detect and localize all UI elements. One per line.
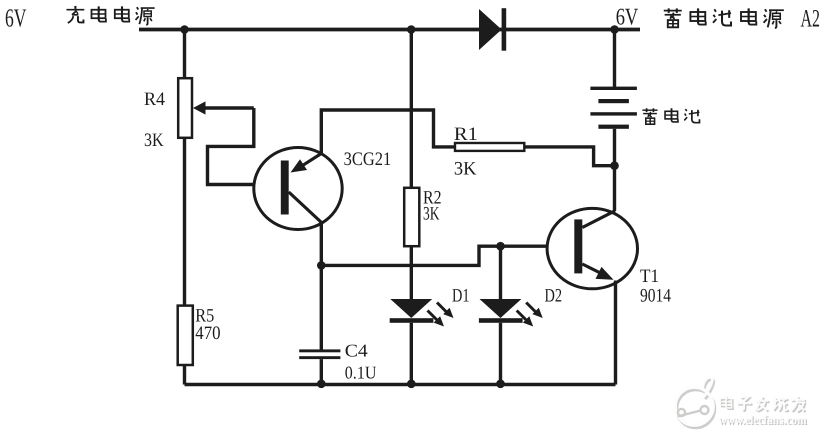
svg-text:470: 470 xyxy=(195,323,220,344)
wire U1 collector down xyxy=(320,223,323,266)
wire C4 top xyxy=(320,265,323,350)
LED D1 xyxy=(390,299,454,385)
resistor R1 xyxy=(455,143,524,151)
node junction R1/battery xyxy=(610,161,619,170)
wire top rail xyxy=(139,28,640,32)
wire battery top xyxy=(613,30,616,88)
node junction C4 bottom xyxy=(317,380,326,389)
node junction battery rail xyxy=(610,25,619,34)
wire bottom rail xyxy=(185,383,616,386)
capacitor C4 xyxy=(299,349,340,359)
node junction collector line xyxy=(317,261,326,270)
svg-text:6V: 6V xyxy=(5,4,27,33)
svg-text:3K: 3K xyxy=(454,159,477,180)
svg-text:3CG21: 3CG21 xyxy=(344,149,392,170)
watermark logo circle xyxy=(675,377,714,427)
T1 emitter (arrow out) xyxy=(582,264,613,280)
node junction D2 tap xyxy=(496,242,505,251)
node junction center rail xyxy=(407,25,416,34)
svg-text:www.elecfans.com: www.elecfans.com xyxy=(719,413,808,427)
wire wiper to base of U1 xyxy=(208,108,255,185)
node junction D1 bottom xyxy=(407,380,416,389)
wire D2 top xyxy=(499,246,502,299)
resistor R2 xyxy=(404,188,419,246)
svg-text:3K: 3K xyxy=(423,204,440,225)
svg-text:T1: T1 xyxy=(640,266,659,287)
resistor R4 (potentiometer body) xyxy=(178,78,192,138)
svg-text:C4: C4 xyxy=(345,341,368,361)
wire C4 bottom xyxy=(320,359,323,384)
wire battery bottom to T1 collector xyxy=(613,129,616,211)
diode D (charging diode) xyxy=(479,8,506,51)
transistor U1 3CG21 circle xyxy=(254,148,342,230)
wire left rail upper xyxy=(183,30,186,79)
label 蓄电池电源 xyxy=(664,8,784,28)
transistor T1 circle xyxy=(547,208,637,288)
svg-text:R1: R1 xyxy=(454,124,478,145)
wire R1 right to battery rail xyxy=(524,147,614,166)
R4 wiper arrow xyxy=(193,101,254,114)
svg-text:0.1U: 0.1U xyxy=(345,363,377,383)
label 充电电源 xyxy=(66,6,154,25)
svg-text:3K: 3K xyxy=(144,130,164,151)
wire T1 emitter down xyxy=(614,281,617,385)
wire collector line to T1 base xyxy=(321,246,548,265)
wire U1 emitter up and over to R1 xyxy=(321,110,455,154)
U1 emitter (arrow into base) xyxy=(291,154,322,173)
T1 base bar xyxy=(574,219,582,273)
battery BT (蓄电池) xyxy=(590,87,637,129)
node junction D2 bottom xyxy=(496,380,505,389)
U1 base bar xyxy=(281,161,289,215)
svg-text:D2: D2 xyxy=(545,286,563,307)
wire center rail xyxy=(410,30,413,188)
svg-text:D1: D1 xyxy=(452,286,470,307)
svg-text:R4: R4 xyxy=(144,89,165,110)
svg-text:9014: 9014 xyxy=(640,286,671,307)
LED D2 xyxy=(479,299,543,385)
resistor R5 xyxy=(178,306,193,365)
svg-text:6V: 6V xyxy=(616,5,639,31)
wire left rail middle xyxy=(183,138,186,306)
watermark text 电子发烧友 xyxy=(722,397,807,412)
U1 collector diagonal xyxy=(289,192,322,223)
wire left rail lower xyxy=(183,365,186,385)
label 蓄电池 xyxy=(642,108,699,124)
svg-text:A2: A2 xyxy=(801,6,821,33)
T1 collector diagonal xyxy=(582,211,615,228)
wire R2 bottom to D1 xyxy=(410,246,413,299)
node junction left rail xyxy=(180,25,189,34)
